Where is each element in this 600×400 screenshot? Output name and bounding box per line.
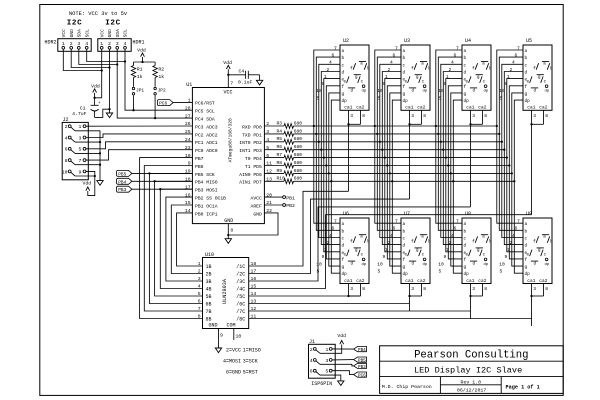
- svg-text:a: a: [342, 49, 345, 54]
- svg-text:R6: R6: [277, 144, 283, 150]
- wire PB3 to U10 4B: [159, 188, 202, 288]
- wire /6C to U7 ca: [249, 303, 410, 305]
- ground (J2): [97, 181, 103, 186]
- svg-text:PB1: PB1: [286, 195, 295, 201]
- svg-text:5: 5: [439, 269, 442, 275]
- svg-text:5: 5: [326, 369, 329, 375]
- svg-text:7B: 7B: [206, 309, 212, 315]
- wire PC6 to U1 pin1: [173, 101, 192, 103]
- resistor R1: [131, 62, 142, 87]
- svg-text:e: e: [465, 81, 468, 85]
- wire J2 pin3 to PC2: [86, 134, 192, 138]
- svg-text:U1: U1: [186, 82, 192, 88]
- svg-text:06/12/2017: 06/12/2017: [457, 387, 486, 393]
- svg-text:2=VCC: 2=VCC: [226, 348, 241, 354]
- svg-text:PB7: PB7: [195, 156, 204, 162]
- svg-text:6: 6: [454, 226, 457, 232]
- wire J2 pin7 to PC0: [86, 150, 192, 160]
- junction: [498, 133, 500, 135]
- svg-text:dp: dp: [403, 99, 409, 104]
- svg-text:6: 6: [393, 226, 396, 232]
- svg-text:d: d: [342, 244, 345, 249]
- junction: [391, 180, 393, 182]
- svg-text:680: 680: [294, 152, 303, 158]
- svg-text:9: 9: [505, 254, 508, 260]
- svg-text:RXD PD0: RXD PD0: [242, 124, 262, 130]
- svg-text:7: 7: [79, 158, 82, 164]
- resistor R10: [264, 176, 302, 184]
- junction: [379, 141, 381, 143]
- connector J2: [62, 117, 89, 180]
- node PB4 tag: [117, 178, 132, 185]
- svg-text:PC5 SCL: PC5 SCL: [195, 109, 215, 115]
- svg-text:PC3 ADC3: PC3 ADC3: [195, 124, 218, 130]
- display U3: [377, 38, 431, 119]
- svg-text:dp: dp: [403, 272, 409, 277]
- wire U8 ca stubs: [469, 284, 482, 298]
- svg-text:ca1: ca1: [527, 105, 535, 111]
- wire PB4 tag: [132, 180, 193, 182]
- svg-text:JP2: JP2: [158, 88, 166, 94]
- node PC6 tag (J1): [354, 372, 367, 379]
- node PB5 tag (J1): [354, 357, 367, 364]
- wire U7 ca stubs: [408, 284, 421, 298]
- svg-text:dp: dp: [342, 272, 348, 277]
- node PB1 (AVCC): [264, 195, 295, 201]
- resistor R8: [264, 160, 302, 168]
- wire col1 segment g: [329, 93, 340, 266]
- svg-text:1: 1: [62, 41, 65, 47]
- wire U8 ca descent: [470, 296, 472, 319]
- wire J2 pin1 to PC3: [86, 125, 192, 127]
- svg-text:c: c: [403, 63, 406, 68]
- svg-text:ca2: ca2: [478, 105, 486, 111]
- svg-text:e: e: [526, 81, 529, 85]
- svg-text:8: 8: [423, 286, 426, 292]
- wire segment bus c: [294, 141, 502, 143]
- svg-text:3: 3: [350, 113, 353, 119]
- svg-text:9: 9: [322, 254, 325, 260]
- svg-text:R4: R4: [277, 128, 283, 134]
- svg-text:a: a: [342, 222, 345, 227]
- svg-text:3: 3: [472, 113, 475, 119]
- svg-text:10: 10: [499, 261, 505, 267]
- svg-text:dp: dp: [484, 262, 489, 267]
- svg-text:b: b: [403, 229, 406, 234]
- svg-text:4: 4: [310, 358, 313, 364]
- wire /4C to U5 ca: [249, 215, 532, 289]
- svg-text:Page 1 of 1: Page 1 of 1: [506, 385, 540, 391]
- svg-text:2B: 2B: [206, 272, 212, 278]
- svg-text:ATmega88/168/328: ATmega88/168/328: [228, 118, 234, 162]
- svg-text:/1C: /1C: [236, 264, 245, 270]
- display U8: [438, 211, 492, 292]
- svg-text:c: c: [342, 63, 345, 68]
- display U7: [377, 211, 431, 292]
- wire U1 pin7 VCC: [227, 74, 229, 88]
- svg-text:U8: U8: [465, 211, 471, 217]
- node PB4 tag (J1): [354, 347, 367, 354]
- svg-text:g: g: [525, 92, 528, 97]
- wire J2 pin9 to Vdd: [86, 171, 95, 195]
- svg-text:/5C: /5C: [236, 294, 245, 300]
- svg-text:VCC: VCC: [61, 29, 67, 38]
- svg-text:g: g: [416, 76, 419, 80]
- svg-text:PB3: PB3: [118, 187, 126, 193]
- junction: [437, 133, 439, 135]
- svg-text:ca1: ca1: [527, 278, 535, 284]
- wire segment bus dp: [294, 180, 515, 182]
- wire col2 segment e: [385, 79, 401, 252]
- svg-text:M.D. Chip Pearson: M.D. Chip Pearson: [382, 384, 432, 390]
- junction: [323, 156, 325, 158]
- svg-text:7: 7: [230, 80, 233, 86]
- svg-text:5: 5: [378, 269, 381, 275]
- note text: [69, 11, 128, 17]
- svg-text:1B: 1B: [206, 264, 212, 270]
- svg-text:TXD PD1: TXD PD1: [242, 132, 262, 138]
- svg-text:JP1: JP1: [136, 88, 144, 94]
- svg-text:e: e: [343, 254, 346, 258]
- wire PB0 to U10 1B: [177, 213, 203, 266]
- svg-text:dp: dp: [525, 99, 531, 104]
- svg-text:d: d: [403, 244, 406, 249]
- svg-text:VCC: VCC: [223, 89, 232, 95]
- svg-text:f: f: [464, 258, 467, 263]
- svg-text:GND: GND: [107, 29, 113, 38]
- resistor R3: [264, 120, 302, 128]
- svg-text:b: b: [489, 240, 492, 245]
- svg-text:680: 680: [294, 128, 303, 134]
- svg-text:g: g: [403, 265, 406, 270]
- svg-text:c: c: [464, 63, 467, 68]
- ic U1 ATmega88/168/328: [185, 80, 272, 233]
- svg-text:U4: U4: [465, 38, 471, 44]
- svg-text:AIN1 PD7: AIN1 PD7: [239, 180, 262, 186]
- svg-text:PC6/RST: PC6/RST: [195, 101, 215, 107]
- svg-text:c: c: [342, 237, 345, 242]
- svg-text:f: f: [411, 66, 414, 71]
- title block: [380, 346, 564, 394]
- wire U2 ca descent: [348, 124, 350, 191]
- wire col3 segment b: [438, 57, 462, 230]
- wire col3 segment d: [443, 72, 462, 245]
- svg-text:g: g: [416, 249, 419, 253]
- wire col3 segment f: [448, 86, 462, 259]
- wire JP1 to SCL: [133, 95, 135, 110]
- svg-text:27: 27: [185, 113, 191, 119]
- svg-text:8: 8: [230, 228, 233, 234]
- svg-text:Pearson Consulting: Pearson Consulting: [414, 350, 528, 362]
- svg-text:GND: GND: [224, 218, 233, 224]
- svg-text:J2: J2: [63, 117, 69, 123]
- wire col4 segment b: [499, 57, 523, 230]
- svg-text:PC2 ADC2: PC2 ADC2: [195, 132, 218, 138]
- wire col2 segment g: [390, 93, 401, 266]
- wire J2 pin10: [75, 175, 96, 177]
- svg-text:b: b: [550, 240, 553, 245]
- svg-text:d: d: [534, 88, 537, 93]
- wire Vdd rail: [134, 61, 156, 63]
- svg-text:/8C: /8C: [236, 317, 245, 323]
- svg-text:5: 5: [500, 269, 503, 275]
- svg-text:d: d: [473, 262, 476, 267]
- svg-text:INT1 PD3: INT1 PD3: [239, 148, 262, 154]
- svg-text:g: g: [342, 92, 345, 97]
- svg-text:C4: C4: [239, 68, 245, 74]
- power Vdd (pullups): [137, 48, 146, 63]
- svg-text:a: a: [543, 63, 546, 67]
- svg-text:R7: R7: [277, 152, 283, 158]
- wire U3 ca stubs: [408, 110, 421, 125]
- junction: [513, 180, 515, 182]
- svg-text:a: a: [360, 63, 363, 67]
- svg-text:ca2: ca2: [417, 278, 425, 284]
- svg-text:680: 680: [294, 160, 303, 166]
- svg-text:COM: COM: [226, 323, 235, 329]
- junction: [496, 125, 498, 127]
- svg-text:a: a: [421, 236, 424, 240]
- svg-text:ISP6PIN: ISP6PIN: [311, 381, 332, 387]
- svg-text:R2: R2: [158, 67, 164, 73]
- svg-text:g: g: [403, 92, 406, 97]
- wire PB1 to U10 2B: [171, 205, 202, 274]
- svg-text:3: 3: [77, 41, 80, 47]
- svg-text:b: b: [428, 240, 431, 245]
- power Vdd (U1): [223, 60, 232, 75]
- svg-text:a: a: [482, 236, 485, 240]
- wire col1 segment f: [326, 86, 340, 259]
- power Vdd (J1): [337, 333, 346, 344]
- svg-text:b: b: [403, 56, 406, 61]
- svg-text:dp: dp: [484, 89, 489, 94]
- ground (J1): [338, 381, 344, 386]
- svg-text:b: b: [367, 240, 370, 245]
- svg-text:ca2: ca2: [539, 278, 547, 284]
- svg-text:b: b: [367, 66, 370, 71]
- wire /7C to U8 ca: [249, 310, 471, 312]
- svg-text:d: d: [464, 244, 467, 249]
- wire col2 segment c: [380, 64, 401, 237]
- display U9: [499, 211, 553, 292]
- svg-text:g: g: [538, 249, 541, 253]
- junction: [330, 180, 332, 182]
- svg-text:ca2: ca2: [539, 105, 547, 111]
- power Vdd (J2): [82, 181, 91, 191]
- svg-text:c: c: [483, 81, 486, 85]
- junction: [384, 156, 386, 158]
- svg-text:U2: U2: [343, 38, 349, 44]
- svg-text:b: b: [489, 66, 492, 71]
- svg-text:U10: U10: [205, 252, 214, 258]
- svg-text:a: a: [403, 49, 406, 54]
- svg-text:dp: dp: [362, 262, 367, 267]
- svg-text:ca1: ca1: [405, 278, 413, 284]
- wire PB2 to U10 3B: [166, 197, 203, 281]
- wire col3 segment a: [436, 50, 462, 223]
- junction: [315, 133, 317, 135]
- svg-text:2: 2: [65, 124, 68, 130]
- svg-text:b: b: [342, 56, 345, 61]
- svg-text:e: e: [404, 254, 407, 258]
- resistor R4: [264, 128, 302, 136]
- svg-text:ca1: ca1: [344, 105, 352, 111]
- wire VCC pair link: [63, 49, 103, 71]
- svg-text:AVCC: AVCC: [251, 196, 262, 202]
- node PB3 tag (J1): [354, 363, 367, 370]
- wire col4 segment e: [507, 79, 523, 252]
- junction: [452, 180, 454, 182]
- svg-text:PC4 SDA: PC4 SDA: [195, 117, 215, 123]
- wire col1 segment c: [319, 64, 340, 237]
- svg-text:Rev 1.0: Rev 1.0: [461, 379, 482, 385]
- wire PB5 to U10 6B: [148, 172, 202, 303]
- junction: [501, 141, 503, 143]
- svg-text:3: 3: [411, 286, 414, 292]
- svg-text:SDA: SDA: [115, 29, 121, 38]
- resistor R2: [153, 62, 164, 87]
- svg-text:e: e: [465, 254, 468, 258]
- svg-text:c: c: [483, 254, 486, 258]
- wire col1 segment dp: [331, 100, 340, 273]
- ground (header GND): [106, 113, 112, 118]
- wire PB7 to U10 8B: [140, 158, 203, 319]
- svg-text:8: 8: [484, 286, 487, 292]
- svg-text:f: f: [350, 66, 353, 71]
- svg-text:d: d: [351, 262, 354, 267]
- resistor R9: [264, 168, 302, 176]
- svg-text:dp: dp: [525, 272, 531, 277]
- svg-text:d: d: [525, 244, 528, 249]
- svg-text:Vdd: Vdd: [223, 60, 232, 66]
- wire U5 ca stubs: [530, 110, 543, 125]
- svg-text:ca2: ca2: [478, 278, 486, 284]
- wire J1 pin2 to Vdd: [320, 345, 342, 354]
- wire SCL pair link: [87, 49, 126, 62]
- svg-text:Vdd: Vdd: [337, 333, 346, 339]
- svg-text:ca2: ca2: [356, 105, 364, 111]
- svg-text:/3C: /3C: [236, 279, 245, 285]
- svg-text:10: 10: [438, 261, 444, 267]
- junction: [318, 141, 320, 143]
- svg-text:4B: 4B: [206, 287, 212, 293]
- capacitor C1: [72, 98, 101, 118]
- connector HDR1: [98, 20, 145, 52]
- svg-text:C1: C1: [80, 106, 86, 112]
- svg-text:PB4 MISO: PB4 MISO: [195, 180, 218, 186]
- svg-text:9: 9: [444, 254, 447, 260]
- svg-text:8: 8: [362, 286, 365, 292]
- wire col3 segment dp: [453, 100, 462, 273]
- svg-text:f: f: [411, 240, 414, 245]
- svg-text:PB4: PB4: [118, 179, 126, 185]
- wire segment bus d: [294, 149, 505, 151]
- svg-text:R1: R1: [137, 67, 143, 73]
- wire VCC net: [95, 49, 102, 98]
- svg-text:PC6: PC6: [159, 101, 167, 107]
- svg-text:AREF: AREF: [251, 203, 262, 209]
- wire U4 ca descent: [470, 124, 472, 207]
- svg-text:SCL: SCL: [84, 29, 90, 38]
- svg-text:f: f: [403, 85, 406, 90]
- svg-text:c: c: [361, 81, 364, 85]
- svg-text:c: c: [525, 63, 528, 68]
- svg-text:b: b: [428, 66, 431, 71]
- junction: [447, 164, 449, 166]
- svg-text:PB0 ICP1: PB0 ICP1: [195, 211, 218, 217]
- svg-text:b: b: [464, 56, 467, 61]
- svg-text:10: 10: [236, 334, 242, 340]
- svg-text:1=MISO: 1=MISO: [243, 348, 261, 354]
- svg-text:J1: J1: [309, 339, 315, 345]
- svg-text:g: g: [355, 76, 358, 80]
- display U2: [316, 38, 370, 119]
- jumper JP2: [154, 87, 166, 95]
- svg-text:680: 680: [294, 120, 303, 126]
- svg-text:/6C: /6C: [236, 302, 245, 308]
- wire col4 segment dp: [514, 100, 523, 273]
- wire GND net: [108, 49, 110, 113]
- junction: [381, 149, 383, 151]
- wire col1 segment b: [316, 57, 340, 230]
- wire PB6 to U10 7B: [144, 166, 202, 312]
- svg-text:Vdd: Vdd: [91, 83, 100, 89]
- svg-text:3: 3: [533, 113, 536, 119]
- wire SCL net: [125, 49, 192, 111]
- svg-text:ULN2803A: ULN2803A: [222, 278, 228, 304]
- svg-text:5: 5: [79, 147, 82, 153]
- svg-text:c: c: [361, 254, 364, 258]
- svg-text:dp: dp: [423, 262, 428, 267]
- svg-text:g: g: [538, 76, 541, 80]
- svg-text:R8: R8: [277, 160, 283, 166]
- junction: [511, 172, 513, 174]
- svg-text:SDA: SDA: [76, 29, 82, 38]
- wire PB5 tag: [132, 172, 193, 174]
- svg-text:d: d: [403, 71, 406, 76]
- wire col1 segment a: [314, 50, 340, 223]
- svg-text:6: 6: [65, 147, 68, 153]
- svg-text:U7: U7: [404, 211, 410, 217]
- wire U2 ca stubs: [347, 110, 360, 125]
- junction: [386, 164, 388, 166]
- wire GND pair link: [71, 49, 110, 68]
- svg-text:f: f: [342, 258, 345, 263]
- display U6: [316, 211, 370, 292]
- svg-text:0.1uF: 0.1uF: [238, 79, 253, 85]
- svg-text:+: +: [98, 101, 101, 106]
- wire col3 segment e: [446, 79, 462, 252]
- svg-text:a: a: [421, 63, 424, 67]
- junction: [374, 125, 376, 127]
- svg-text:ca2: ca2: [417, 105, 425, 111]
- power Vdd (C1): [91, 83, 100, 99]
- display U5: [499, 38, 553, 119]
- svg-text:I2C: I2C: [105, 20, 120, 28]
- svg-text:f: f: [533, 240, 536, 245]
- svg-text:SCL: SCL: [123, 29, 129, 38]
- svg-text:c: c: [422, 254, 425, 258]
- svg-text:f: f: [525, 85, 528, 90]
- junction: [313, 125, 315, 127]
- junction: [442, 149, 444, 151]
- svg-text:5=RST: 5=RST: [243, 370, 258, 376]
- svg-text:680: 680: [294, 176, 303, 182]
- svg-text:5B: 5B: [206, 294, 212, 300]
- svg-text:INT0 PD2: INT0 PD2: [239, 140, 262, 146]
- svg-text:3: 3: [533, 286, 536, 292]
- svg-text:PC1 ADC1: PC1 ADC1: [195, 140, 218, 146]
